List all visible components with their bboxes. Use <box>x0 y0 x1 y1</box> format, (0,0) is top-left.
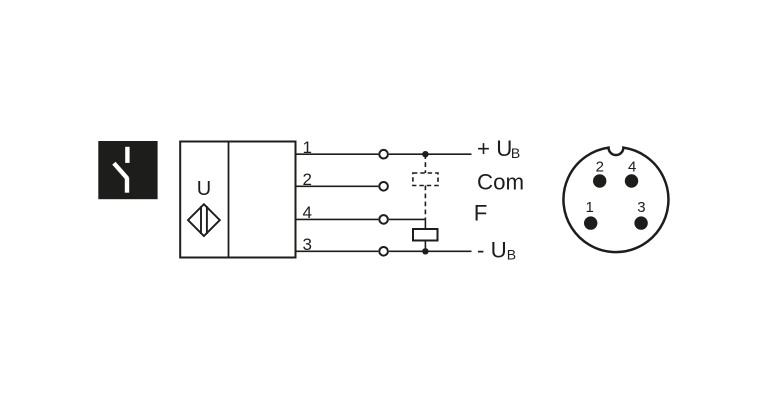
svg-text:3: 3 <box>637 199 645 216</box>
terminal circle wire 4 <box>379 215 388 224</box>
terminal circle wire 3 <box>379 247 388 256</box>
connector face outline with keyway <box>563 148 668 252</box>
connector pin 3 dot <box>634 216 647 229</box>
diamond inner line left <box>200 206 202 234</box>
switch icon lever <box>114 163 127 178</box>
switch icon upper contact bar <box>125 147 129 163</box>
wire 4 left segment <box>296 218 379 220</box>
sensor box U1 outline <box>180 142 295 258</box>
switch icon lower contact bar <box>125 177 129 192</box>
connector pin 1 dot <box>584 216 597 229</box>
connector pin 4 dot <box>625 174 638 187</box>
wire 1 left segment <box>296 153 379 155</box>
junction node wire 3 <box>422 248 428 254</box>
svg-text:U: U <box>197 178 211 200</box>
svg-text:- UB: - UB <box>477 238 516 263</box>
wire load to wire 3 <box>424 241 426 252</box>
dashed wire lower <box>424 186 426 220</box>
svg-text:Com: Com <box>477 170 524 195</box>
connector pin 2 dot <box>593 174 606 187</box>
wire 4 right segment <box>389 218 426 220</box>
terminal circle wire 1 <box>379 150 388 159</box>
terminal circle wire 2 <box>379 182 388 191</box>
svg-text:F: F <box>474 201 488 226</box>
voltage output symbol diamond <box>188 204 220 236</box>
wire 3 right segment <box>389 250 472 252</box>
wire 2 segment <box>296 185 379 187</box>
load resistor box <box>413 229 438 241</box>
wire 3 left segment <box>296 250 379 252</box>
svg-text:2: 2 <box>596 159 604 176</box>
svg-text:+ UB: + UB <box>477 136 520 161</box>
sensor box divider <box>228 142 230 258</box>
wire 1 right segment <box>389 153 472 155</box>
switch icon background <box>98 141 157 199</box>
diamond inner line right <box>206 206 208 234</box>
svg-text:4: 4 <box>628 159 636 176</box>
wire junction to load <box>424 219 426 229</box>
svg-text:1: 1 <box>586 199 594 216</box>
junction node wire 1 <box>422 151 428 157</box>
dashed wire upper <box>424 154 426 173</box>
dashed component box <box>413 173 438 186</box>
